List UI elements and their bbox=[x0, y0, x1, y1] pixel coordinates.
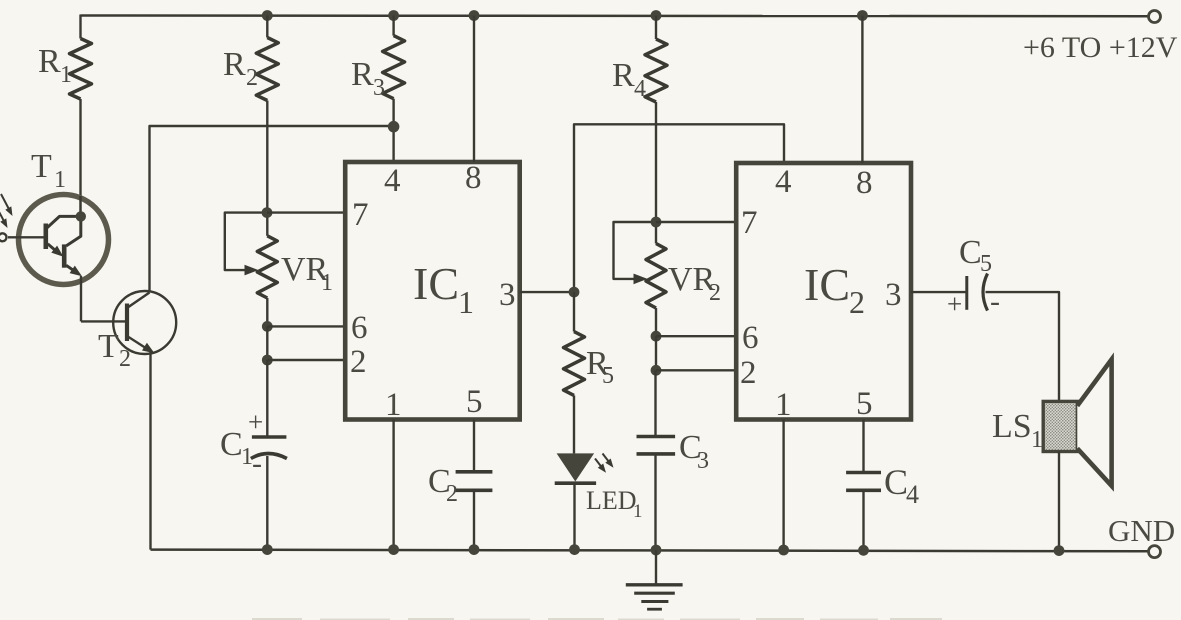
capacitor C1 electrolytic bbox=[266, 360, 268, 437]
svg-text:T: T bbox=[31, 148, 52, 185]
potentiometer VR2 bbox=[655, 222, 657, 244]
node junction IC2 pin8/top rail bbox=[857, 10, 868, 21]
svg-text:1: 1 bbox=[633, 501, 643, 522]
node junction R3/top rail bbox=[388, 10, 399, 21]
svg-text:2: 2 bbox=[446, 481, 458, 507]
wire T2 collector up and right to R3 foot bbox=[150, 126, 394, 293]
wire IC2 pin8 to rail bbox=[861, 16, 863, 164]
svg-text:C: C bbox=[959, 234, 982, 271]
node C1/ground rail bbox=[262, 544, 273, 555]
svg-text:1: 1 bbox=[54, 167, 66, 193]
svg-text:4: 4 bbox=[775, 164, 792, 200]
svg-text:2: 2 bbox=[350, 344, 367, 380]
svg-text:2: 2 bbox=[849, 284, 865, 320]
svg-text:1: 1 bbox=[60, 62, 72, 88]
ground symbol bbox=[655, 550, 657, 585]
node LS1/ground rail bbox=[1054, 545, 1065, 556]
wire to IC2 pin 6 bbox=[656, 335, 736, 337]
wire IC2 pin1 to ground rail bbox=[782, 420, 784, 550]
svg-text:5: 5 bbox=[980, 251, 992, 277]
svg-text:T: T bbox=[98, 328, 119, 365]
svg-text:7: 7 bbox=[352, 197, 369, 233]
node IC1 pin1/ground rail bbox=[388, 544, 399, 555]
wire to IC2 pin 2 bbox=[656, 369, 736, 371]
wire to IC1 pin 7 bbox=[267, 211, 345, 213]
svg-text:R: R bbox=[612, 57, 635, 94]
node IC2 pin1/ground rail bbox=[778, 545, 789, 556]
resistor R4 bbox=[655, 16, 657, 40]
op-amp IC1 555 timer box bbox=[345, 162, 520, 420]
capacitor C2 bbox=[473, 420, 475, 472]
svg-text:+: + bbox=[947, 289, 962, 319]
svg-text:1: 1 bbox=[1031, 427, 1043, 453]
resistor R1 bbox=[79, 15, 81, 39]
svg-text:R: R bbox=[38, 43, 61, 80]
capacitor C5 electrolytic bbox=[965, 276, 968, 310]
svg-text:+6 TO +12V: +6 TO +12V bbox=[1023, 31, 1178, 64]
svg-text:R: R bbox=[351, 56, 374, 93]
svg-text:1: 1 bbox=[321, 270, 333, 296]
svg-text:6: 6 bbox=[742, 320, 759, 356]
wire ground rail bbox=[151, 550, 1149, 552]
svg-text:1: 1 bbox=[241, 444, 253, 470]
svg-text:6: 6 bbox=[351, 310, 368, 346]
svg-text:2: 2 bbox=[246, 65, 258, 91]
node junction R2/top rail bbox=[262, 10, 273, 21]
wire T2 emitter down to ground rail bbox=[149, 351, 151, 550]
wire LS1 to ground rail bbox=[1058, 452, 1060, 550]
svg-text:IC: IC bbox=[413, 258, 459, 309]
terminal T1 base bbox=[0, 233, 7, 241]
svg-text:LED: LED bbox=[586, 486, 637, 515]
svg-text:C: C bbox=[884, 462, 908, 502]
svg-text:GND: GND bbox=[1108, 513, 1175, 548]
svg-text:4: 4 bbox=[384, 163, 401, 199]
node VR1 bottom / IC1 pin6 bbox=[262, 321, 273, 332]
svg-text:5: 5 bbox=[602, 363, 614, 389]
svg-text:4: 4 bbox=[634, 76, 646, 102]
wire T1 emitter to T2 base bbox=[81, 320, 127, 322]
wire top supply rail +V bbox=[81, 14, 1149, 17]
node VR1 top / IC1 pin7 bbox=[262, 207, 273, 218]
potentiometer VR1 bbox=[266, 213, 268, 236]
light arrows out of LED1 bbox=[595, 459, 603, 470]
svg-text:1: 1 bbox=[385, 387, 402, 423]
wire to IC2 pin 7 bbox=[656, 221, 736, 223]
capacitor C4 bbox=[862, 420, 864, 473]
svg-text:3: 3 bbox=[499, 277, 516, 313]
wire VR1 wiper loop bbox=[225, 213, 267, 271]
node C2/ground rail bbox=[469, 544, 480, 555]
svg-text:1: 1 bbox=[775, 387, 792, 423]
svg-text:IC: IC bbox=[804, 259, 850, 310]
resistor R3 bbox=[392, 16, 394, 36]
node R3 foot / T2 collector / IC1 pin4 bbox=[388, 121, 400, 133]
svg-text:-: - bbox=[252, 447, 262, 480]
wire VR2 wiper loop bbox=[614, 222, 657, 279]
terminal GND bbox=[1149, 546, 1161, 558]
svg-text:8: 8 bbox=[856, 165, 873, 201]
transistor T2 bbox=[113, 291, 176, 354]
svg-text:3: 3 bbox=[373, 75, 385, 101]
svg-text:2: 2 bbox=[709, 280, 721, 306]
wire to IC1 pin 6 bbox=[267, 325, 345, 327]
wire IC1 pin8 to rail bbox=[473, 16, 475, 163]
svg-text:2: 2 bbox=[740, 355, 757, 391]
resistor R5 bbox=[573, 292, 575, 332]
node junction IC1 pin8/top rail bbox=[469, 10, 480, 21]
node C4/ground rail bbox=[858, 545, 869, 556]
wire IC1 pin3 out bbox=[520, 291, 574, 293]
wire IC1 pin1 to ground rail bbox=[392, 420, 394, 550]
loudspeaker LS1 bbox=[1043, 401, 1077, 451]
svg-text:8: 8 bbox=[465, 160, 482, 196]
svg-text:-: - bbox=[990, 285, 1000, 318]
terminal +V supply bbox=[1149, 11, 1161, 23]
node VR2 bottom / IC2 pin6 bbox=[651, 331, 662, 342]
svg-text:1: 1 bbox=[458, 284, 474, 320]
node LED1/ground rail bbox=[569, 544, 580, 555]
resistor R2 bbox=[266, 16, 268, 38]
faint caption remnant bbox=[252, 618, 942, 620]
node VR2 top / IC2 pin7 bbox=[651, 217, 662, 228]
wire IC2 pin3 out bbox=[911, 291, 967, 293]
node C3/ground rail bbox=[651, 545, 662, 556]
LED LED1 bbox=[557, 453, 595, 481]
op-amp IC2 555 timer box bbox=[736, 163, 911, 420]
svg-text:C: C bbox=[220, 426, 243, 463]
svg-text:+: + bbox=[248, 407, 263, 437]
svg-text:5: 5 bbox=[466, 384, 483, 420]
svg-text:R: R bbox=[223, 46, 246, 83]
svg-text:3: 3 bbox=[697, 448, 709, 474]
node T1 collector junction bbox=[76, 211, 86, 221]
node IC2 pin2 tap bbox=[651, 365, 662, 376]
node junction R4/top rail bbox=[651, 10, 662, 21]
wire to IC1 pin 2 bbox=[267, 359, 345, 361]
light arrows into T1 bbox=[1, 194, 10, 212]
svg-text:5: 5 bbox=[856, 386, 873, 422]
svg-text:LS: LS bbox=[992, 408, 1032, 445]
svg-text:7: 7 bbox=[741, 205, 758, 241]
wire IC1 pin3 up to IC2 pin4 bbox=[574, 124, 784, 292]
svg-text:3: 3 bbox=[885, 277, 902, 313]
transistor T1 phototransistor bbox=[19, 195, 109, 285]
node IC1 pin3 junction bbox=[569, 287, 580, 298]
capacitor C3 bbox=[654, 370, 656, 436]
node IC1 pin2 tap bbox=[262, 355, 273, 366]
svg-text:4: 4 bbox=[906, 480, 919, 509]
wire C5 to LS1 bbox=[986, 292, 1060, 401]
svg-text:2: 2 bbox=[119, 346, 131, 372]
